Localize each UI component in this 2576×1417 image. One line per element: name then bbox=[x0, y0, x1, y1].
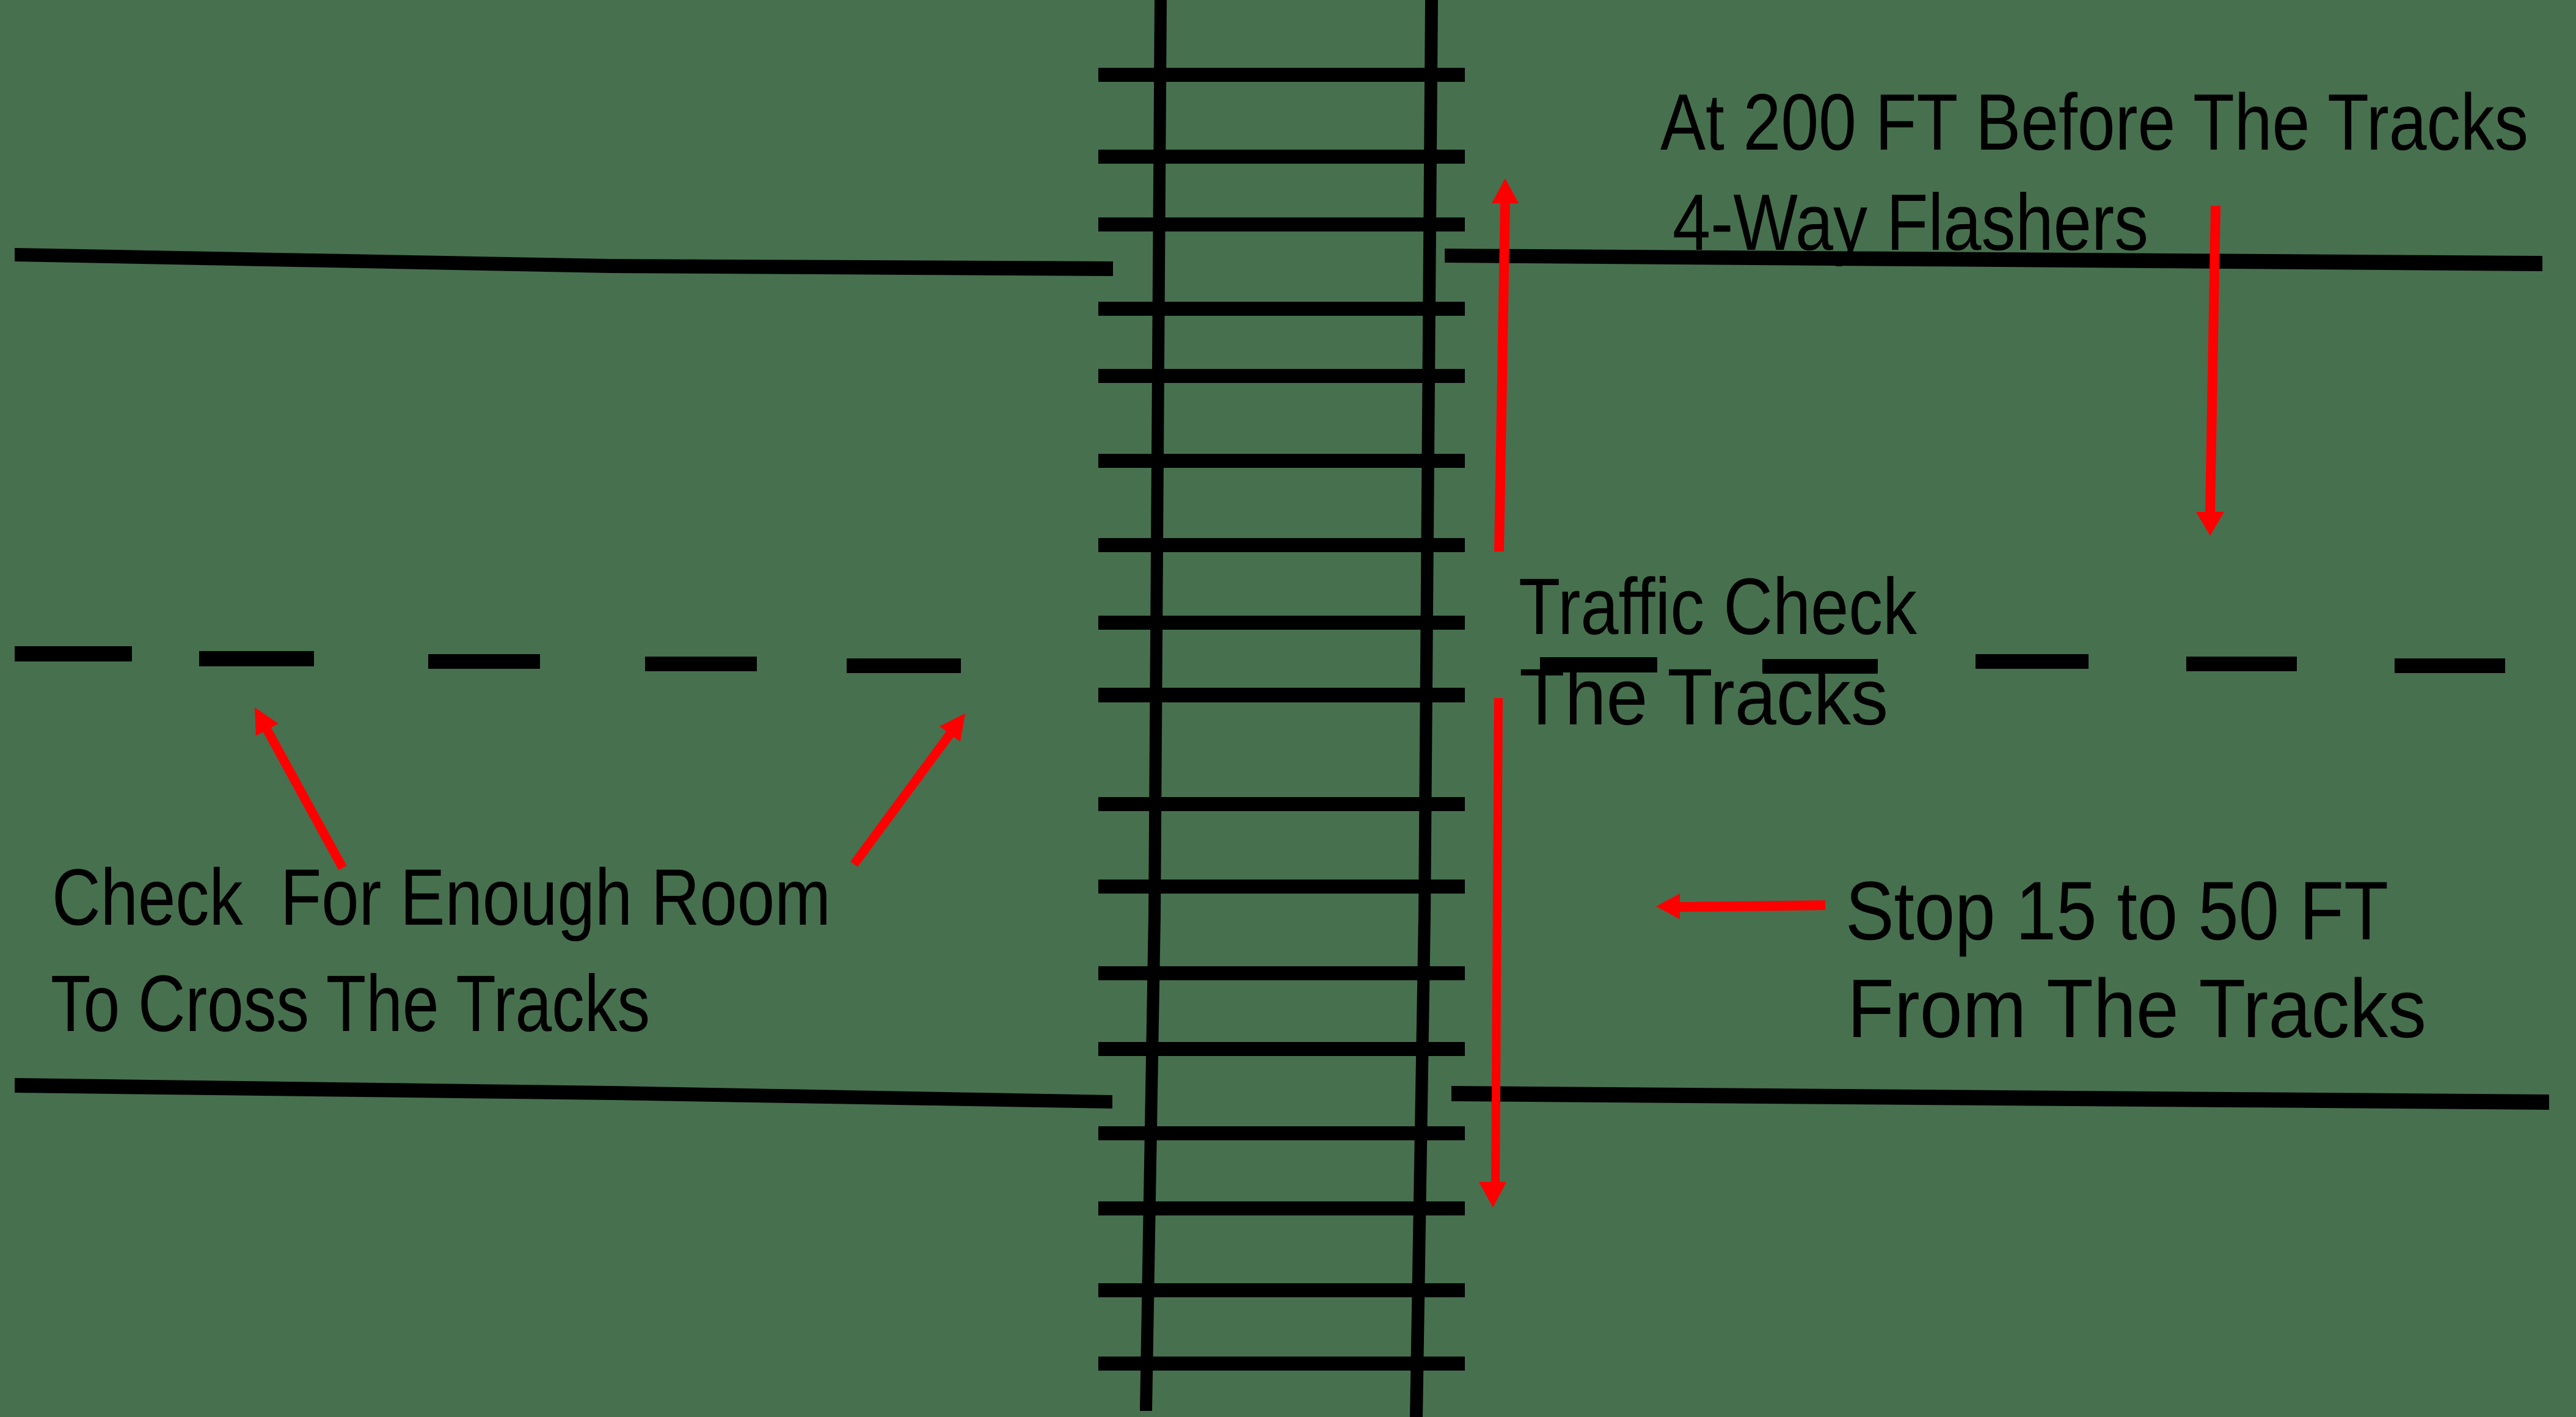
red arrow diagonal right (check for enough room) bbox=[850, 713, 965, 867]
red arrow down (traffic check, pointing down) bbox=[1479, 698, 1506, 1208]
road center dashed line left dash 4 bbox=[645, 657, 757, 671]
svg-text:Traffic Check: Traffic Check bbox=[1519, 561, 1917, 651]
road center dashed line left dash 2 bbox=[199, 651, 314, 666]
railroad tie 11 bbox=[1098, 880, 1465, 894]
svg-text:The Tracks: The Tracks bbox=[1519, 652, 1888, 741]
railroad tie 10 bbox=[1098, 797, 1465, 811]
railroad tie 9 bbox=[1098, 688, 1465, 702]
road center dashed line right dash 3 bbox=[1976, 654, 2089, 669]
svg-text:From The Tracks: From The Tracks bbox=[1847, 962, 2426, 1055]
road center dashed line right dash 2 bbox=[1762, 659, 1878, 674]
railroad tie 4 bbox=[1098, 302, 1465, 316]
railroad tie 8 bbox=[1098, 616, 1465, 630]
railroad tie 1 bbox=[1098, 68, 1465, 82]
railroad tie 14 bbox=[1098, 1126, 1465, 1140]
road center dashed line left dash 1 bbox=[15, 646, 132, 661]
railroad tie 7 bbox=[1098, 538, 1465, 552]
railroad left rail bbox=[1140, 0, 1167, 1411]
railroad tie 17 bbox=[1098, 1357, 1465, 1371]
red arrow up (traffic check, pointing up) bbox=[1492, 178, 1519, 552]
railroad tie 13 bbox=[1098, 1042, 1465, 1056]
railroad right rail bbox=[1410, 0, 1438, 1417]
railroad tie 5 bbox=[1098, 369, 1465, 383]
railroad tie 12 bbox=[1098, 966, 1465, 980]
road center dashed line right dash 5 bbox=[2395, 658, 2505, 673]
road top edge right segment bbox=[1445, 249, 2542, 271]
red arrow down right (4-way flashers) bbox=[2196, 206, 2224, 536]
road bottom edge left segment bbox=[15, 1078, 1112, 1109]
svg-text:Stop 15 to 50 FT: Stop 15 to 50 FT bbox=[1845, 864, 2388, 957]
red arrow diagonal left (check for enough room) bbox=[255, 707, 347, 870]
railroad tie 16 bbox=[1098, 1283, 1465, 1297]
red arrow left (stop 15 to 50 ft) bbox=[1656, 894, 1825, 919]
svg-text:At 200 FT Before The Tracks: At 200 FT Before The Tracks bbox=[1660, 77, 2528, 167]
railroad tie 6 bbox=[1098, 454, 1465, 468]
railroad tie 3 bbox=[1098, 217, 1465, 231]
road top edge left segment bbox=[15, 248, 1113, 276]
svg-text:To Cross The Tracks: To Cross The Tracks bbox=[51, 958, 650, 1048]
road center dashed line left dash 3 bbox=[428, 654, 540, 669]
svg-text:4-Way Flashers: 4-Way Flashers bbox=[1673, 177, 2148, 267]
svg-text:Check For Enough Room: Check For Enough Room bbox=[52, 852, 831, 942]
railroad tie 2 bbox=[1098, 150, 1465, 164]
road bottom edge right segment bbox=[1451, 1086, 2549, 1110]
road center dashed line right dash 1 bbox=[1540, 657, 1657, 672]
railroad tie 15 bbox=[1098, 1201, 1465, 1215]
road center dashed line right dash 4 bbox=[2186, 657, 2297, 671]
road center dashed line left dash 5 bbox=[847, 658, 961, 673]
